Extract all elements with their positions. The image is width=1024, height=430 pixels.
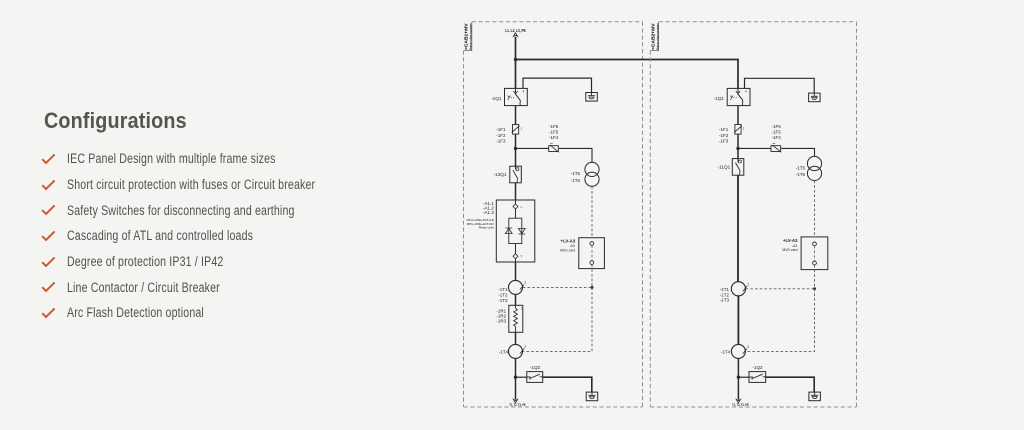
wire: node to -11Q1 (CAB2)	[737, 148, 739, 158]
svg-text:MVD card: MVD card	[782, 248, 797, 252]
wire: dashed junction down to -1T4 row (CAB2)	[746, 289, 815, 352]
transformer -1T5/-1T6 (CAB1)	[585, 162, 599, 176]
svg-text:-1F1: -1F1	[719, 127, 729, 132]
svg-text:-1T4: -1T4	[721, 349, 731, 354]
wire: aux fuse to transformer (CAB2)	[781, 148, 814, 156]
wire: fuses to branch node (CAB2)	[737, 134, 739, 149]
wire: -1T1 to resistor	[515, 294, 517, 305]
svg-text:-1F4: -1F4	[549, 135, 559, 140]
svg-text:-1F3: -1F3	[719, 138, 729, 143]
svg-text:2: 2	[747, 283, 749, 287]
svg-text:-1T5: -1T5	[571, 171, 581, 176]
svg-text:-1T2: -1T2	[720, 292, 730, 297]
enclosure label =CAB1+MV	[464, 23, 469, 50]
svg-text:+LV-A3: +LV-A3	[783, 238, 798, 243]
svg-text:Medium voltage equipment: Medium voltage equipment	[655, 23, 659, 50]
svg-text:-1Q2: -1Q2	[530, 365, 541, 370]
earthing switch -1Q2 (CAB2)	[749, 372, 766, 383]
svg-text:-1T1: -1T1	[720, 287, 730, 292]
fuse -1F1/-1F2/-1F3 (CAB2)	[735, 125, 741, 135]
current transformer -1T4 (CAB2)	[731, 344, 745, 358]
wire: node to -13Q1	[515, 148, 517, 166]
svg-text:-1T1: -1T1	[498, 287, 508, 292]
svg-text:2: 2	[524, 345, 526, 349]
card +LV-A3 (CAB2)	[801, 237, 828, 270]
wire: transformer secondary dashed (CAB2)	[814, 181, 816, 237]
current transformer -1T1/-1T2/-1T3 (CAB1)	[509, 280, 523, 294]
node: measuring junction (CAB2)	[813, 287, 816, 290]
wire: main bus from supply to -1Q1	[515, 37, 517, 89]
wire: card to measuring junction dashed (CAB1)	[591, 265, 593, 288]
svg-text:-13Q1: -13Q1	[493, 172, 506, 177]
wire: dashed junction down to -1T4 row (CAB1)	[523, 287, 592, 351]
wire: -11Q1 to CT -1T1 (CAB2)	[737, 175, 739, 282]
resistor -1R1/-1R2/-1R3 (CAB1)	[509, 305, 523, 332]
card +LV-A3 (CAB1)	[579, 238, 605, 269]
ground symbol at -1Q1 (CAB2)	[809, 93, 821, 102]
wire: -1Q2 to ground (CAB1)	[543, 377, 592, 392]
svg-text:Medium voltage equipment: Medium voltage equipment	[469, 23, 473, 50]
wire: dashed from -1T1 to junction (CAB1)	[523, 286, 592, 288]
outgoing arrow (CAB1)	[513, 399, 517, 403]
svg-text:-1F5: -1F5	[772, 130, 782, 135]
svg-text:MVD card: MVD card	[560, 248, 575, 252]
svg-text:-1Q1: -1Q1	[491, 96, 502, 101]
svg-text:-A1.3: -A1.3	[483, 210, 494, 215]
wire: branch to aux fuse (CAB2)	[738, 147, 771, 149]
node: measuring junction (CAB1)	[591, 286, 594, 289]
svg-text:T: T	[521, 255, 523, 259]
wire: -1Q2 to ground (CAB2)	[766, 377, 815, 392]
current transformer -1T1/-1T2/-1T3 (CAB2)	[731, 282, 745, 296]
wire: aux fuse to transformer (CAB1)	[559, 148, 592, 162]
wire: -1Q1 to fuses	[515, 106, 517, 125]
node: earthing junction (CAB2)	[737, 376, 740, 379]
fuse -1F4/-1F5/-1F6 (CAB2)	[771, 146, 781, 152]
wire: junction to -1Q2 (CAB2)	[738, 376, 749, 378]
svg-text:-1Q1: -1Q1	[714, 96, 725, 101]
wire: card to measuring junction dashed (CAB2)	[814, 265, 816, 289]
svg-text:-1F2: -1F2	[719, 133, 729, 138]
svg-text:-1T2: -1T2	[498, 293, 508, 298]
svg-text:-11Q1: -11Q1	[718, 165, 731, 170]
svg-text:-1Q2: -1Q2	[752, 365, 763, 370]
svg-text:-1F2: -1F2	[496, 133, 506, 138]
circuit breaker -1Q1 (CAB2)	[727, 88, 750, 105]
enclosure =CAB1+MV dashed border	[472, 21, 643, 23]
ground symbol at -1Q1 (CAB1)	[586, 93, 598, 102]
wire: -1T1 to -1T4 (CAB2)	[737, 296, 739, 345]
node: branch junction (CAB2)	[736, 147, 739, 150]
svg-text:1: 1	[743, 127, 745, 131]
svg-text:-1T6: -1T6	[571, 178, 581, 183]
switch-disconnector -13Q1 (CAB1)	[510, 166, 522, 183]
svg-text:2: 2	[747, 345, 749, 349]
circuit breaker -1Q1 (CAB1)	[505, 88, 528, 105]
node: earthing junction (CAB1)	[514, 376, 517, 379]
wire: tie line to =CAB2+MV	[516, 60, 739, 89]
svg-text:+LV-A3: +LV-A3	[561, 238, 576, 243]
wire: junction to -1Q2 (CAB1)	[516, 376, 527, 378]
enclosure =CAB2+MV dashed border	[659, 21, 857, 23]
svg-text:-1T5: -1T5	[796, 165, 806, 170]
enclosure label =CAB2+MV	[651, 23, 656, 50]
wire: resistor to CT -1T4	[515, 332, 517, 344]
ground symbol outgoing (CAB2)	[809, 392, 821, 401]
soft-starter unit -A1.1/-A1.2/-A1.3 (CAB1)	[496, 200, 535, 262]
svg-text:-1T6: -1T6	[796, 172, 806, 177]
outgoing arrow (CAB2)	[736, 399, 740, 403]
svg-text:T1, T2, T3, PE: T1, T2, T3, PE	[732, 403, 749, 407]
wire: dashed from -1T1 to junction (CAB2)	[746, 288, 815, 290]
svg-text:T1, T2, T3, PE: T1, T2, T3, PE	[509, 403, 526, 407]
wire: fuses to branch node	[515, 134, 517, 149]
svg-text:=CAB1+MV: =CAB1+MV	[464, 23, 469, 50]
svg-text:-1T3: -1T3	[498, 298, 508, 303]
earthing switch -1Q2 (CAB1)	[527, 372, 543, 383]
svg-text:-1F4: -1F4	[772, 135, 782, 140]
svg-text:=CAB2+MV: =CAB2+MV	[651, 23, 656, 50]
svg-text:-1F1: -1F1	[496, 127, 506, 132]
wire: earthing branch at -1Q1 (CAB1)	[523, 78, 592, 92]
svg-text:Phase units: Phase units	[479, 226, 495, 230]
svg-text:-1F5: -1F5	[549, 130, 559, 135]
svg-text:-1F3: -1F3	[496, 138, 506, 143]
wire: -1T4 to outgoing (CAB2)	[737, 358, 739, 399]
wire: -1Q1 to fuses (CAB2)	[737, 106, 739, 125]
svg-text:-1T4: -1T4	[499, 349, 509, 354]
switch-disconnector -11Q1 (CAB2)	[732, 159, 744, 176]
wire: earthing branch at -1Q1 (CAB2)	[745, 78, 815, 93]
svg-text:1: 1	[520, 127, 522, 131]
svg-text:-1F6: -1F6	[549, 124, 559, 129]
current transformer -1T4 (CAB1)	[509, 344, 523, 358]
node: bus-tie junction	[514, 58, 517, 61]
fuse -1F1/-1F2/-1F3 (CAB1)	[513, 125, 519, 135]
svg-text:-1F6: -1F6	[772, 124, 782, 129]
svg-text:-1T3: -1T3	[720, 298, 730, 303]
wire: -1T4 to outgoing	[515, 358, 517, 399]
wire: -A1 to CT -1T1	[515, 262, 517, 280]
wire: transformer secondary dashed (CAB1)	[591, 186, 593, 237]
fuse -1F4/-1F5/-1F6 (CAB1)	[549, 146, 559, 152]
node: branch junction (CAB1)	[514, 147, 517, 150]
svg-text:L: L	[521, 205, 523, 209]
svg-text:2: 2	[524, 281, 526, 285]
ground symbol outgoing (CAB1)	[586, 392, 598, 401]
svg-text:-1R3: -1R3	[496, 319, 506, 324]
wire: branch to aux fuse (CAB1)	[516, 147, 549, 149]
incoming supply arrow	[513, 33, 517, 37]
transformer -1T5/-1T6 (CAB2)	[807, 156, 821, 170]
wire: -13Q1 to -A1 unit	[515, 183, 517, 200]
